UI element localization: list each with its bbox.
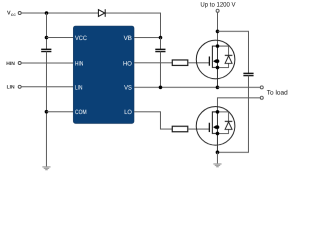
wire diode cathode to VB corner bbox=[105, 13, 160, 38]
wire left vertical to C1 bbox=[45, 13, 47, 49]
node junction C2 return bbox=[159, 86, 163, 90]
svg-text:VCC: VCC bbox=[75, 35, 87, 42]
wire top rail to diode anode bbox=[21, 12, 98, 14]
package circle Q2 low-side MOSFET bbox=[196, 107, 235, 146]
body diode Q1 high-side MOSFET bbox=[217, 46, 232, 67]
channel bar Q2 low-side MOSFET bbox=[212, 112, 217, 134]
wire HV terminal to Q1 drain bbox=[216, 12, 218, 46]
wire Q1 high-side MOSFET drain-source vertical bbox=[216, 46, 218, 87]
wire COM pin bbox=[46, 111, 73, 113]
svg-text:LIN: LIN bbox=[75, 85, 83, 92]
wire VB node to C2 bbox=[159, 38, 161, 50]
terminal to load lower bbox=[260, 96, 263, 99]
capacitor C2 bootstrap bbox=[155, 49, 165, 51]
wire low source to ground bbox=[216, 152, 218, 163]
svg-text:To load: To load bbox=[267, 90, 288, 97]
node junction VS bbox=[216, 86, 220, 90]
svg-text:CC: CC bbox=[11, 13, 16, 17]
terminal LIN bbox=[18, 85, 21, 88]
svg-text:VS: VS bbox=[124, 85, 132, 92]
drain node Q2 low-side MOSFET bbox=[216, 110, 220, 114]
package circle Q1 high-side MOSFET bbox=[196, 40, 235, 79]
wire Q2 low-side MOSFET drain-source vertical bbox=[216, 112, 218, 152]
svg-text:LO: LO bbox=[124, 109, 132, 116]
svg-text:HIN: HIN bbox=[75, 61, 84, 68]
gate bar Q2 low-side MOSFET bbox=[208, 123, 210, 132]
node junction low source bbox=[216, 150, 220, 154]
node junction VB bbox=[159, 36, 163, 40]
wire C1 bottom to COM node and ground bbox=[45, 52, 47, 167]
diode D1 bootstrap bbox=[98, 9, 105, 17]
wire C2 bottom to VS line bbox=[159, 52, 161, 88]
wire VS pin to VS node bbox=[134, 86, 218, 88]
svg-text:LIN: LIN bbox=[7, 85, 15, 91]
body node Q1 high-side MOSFET bbox=[216, 59, 220, 63]
node junction COM bbox=[45, 110, 49, 114]
wire HO pin to R1 bbox=[134, 62, 172, 64]
svg-text:COM: COM bbox=[75, 109, 87, 116]
body arrow Q2 low-side MOSFET bbox=[213, 125, 217, 129]
wire HV node to C3 bbox=[217, 31, 248, 73]
label Vcc bbox=[7, 11, 16, 18]
resistor R2 bbox=[172, 126, 188, 132]
svg-text:HIN: HIN bbox=[6, 61, 15, 67]
terminal to load upper bbox=[260, 86, 263, 89]
ground left bbox=[42, 167, 50, 170]
wire HIN to IC bbox=[21, 62, 73, 64]
gate bar Q1 high-side MOSFET bbox=[208, 56, 210, 65]
node junction HV bbox=[216, 30, 220, 34]
source node Q1 high-side MOSFET bbox=[216, 66, 220, 70]
capacitor C1 bbox=[41, 49, 51, 51]
source node Q2 low-side MOSFET bbox=[216, 132, 220, 136]
transistor Q2 low-side MOSFET bbox=[196, 107, 235, 153]
wire C3 bottom to ground node bbox=[217, 76, 248, 153]
ground right bbox=[213, 164, 221, 167]
wire VB pin bbox=[134, 37, 160, 39]
body node Q2 low-side MOSFET bbox=[216, 125, 220, 129]
wire LIN to IC bbox=[21, 86, 73, 88]
body arrow Q1 high-side MOSFET bbox=[213, 59, 217, 63]
wire R1 to Q1 gate bbox=[188, 62, 210, 64]
gate driver IC U1 bbox=[73, 26, 134, 123]
resistor R1 bbox=[172, 60, 188, 66]
transistor Q1 high-side MOSFET bbox=[196, 40, 235, 87]
svg-text:HO: HO bbox=[123, 61, 132, 68]
channel bar Q1 high-side MOSFET bbox=[212, 46, 217, 67]
terminal Vcc bbox=[18, 12, 21, 15]
body diode Q2 low-side MOSFET bbox=[217, 112, 232, 134]
terminal HV bus bbox=[216, 9, 219, 12]
wire to load lower bbox=[217, 98, 260, 112]
wire to load upper bbox=[217, 86, 260, 88]
node junction VCC branch bbox=[45, 36, 49, 40]
node junction top rail bbox=[45, 11, 49, 15]
wire VCC pin bbox=[46, 37, 73, 39]
capacitor C3 DC link bbox=[243, 73, 253, 75]
svg-text:Up to 1200 V: Up to 1200 V bbox=[200, 2, 236, 9]
svg-text:VB: VB bbox=[124, 35, 132, 42]
wire R2 to Q2 gate bbox=[188, 128, 210, 130]
drain node Q1 high-side MOSFET bbox=[216, 44, 220, 48]
wire LO pin to R2 bbox=[134, 112, 172, 129]
terminal HIN bbox=[18, 62, 21, 65]
